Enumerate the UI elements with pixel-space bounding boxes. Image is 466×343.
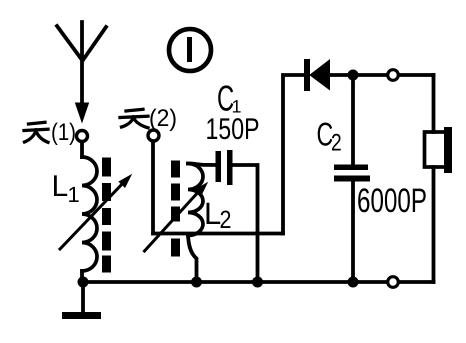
wire tap — [153, 232, 283, 236]
label 天(1) — [24, 122, 48, 142]
value 150P — [207, 118, 258, 139]
terminal node top right — [388, 70, 399, 81]
node junction — [252, 277, 263, 288]
ground — [62, 282, 101, 319]
capacitor C1 — [216, 150, 233, 185]
wire drop from 天(2) — [151, 142, 155, 234]
wire bottom bus — [83, 280, 387, 284]
label C1 — [218, 85, 233, 111]
node junction — [191, 277, 202, 288]
L2 core (dashed) — [171, 161, 180, 257]
earphone B — [425, 75, 453, 282]
wire — [400, 280, 434, 284]
terminal node bottom right — [388, 277, 399, 288]
terminal node 天(2) — [148, 130, 159, 141]
capacitor C2 — [334, 75, 370, 282]
L1 core (dashed) — [102, 158, 111, 273]
L1 arrow — [60, 175, 131, 249]
inductor L1 — [82, 157, 97, 282]
node junction — [348, 277, 359, 288]
wire C1 right, down — [233, 165, 258, 282]
label L1 — [54, 175, 67, 196]
wire — [400, 73, 434, 77]
node junction — [348, 70, 359, 81]
value 6000P — [358, 188, 426, 212]
inductor L2 — [188, 164, 203, 283]
node junction — [78, 277, 89, 288]
label L2 — [207, 203, 221, 224]
wire — [80, 143, 84, 158]
label 天(2) — [120, 109, 148, 128]
diode D — [304, 59, 353, 91]
label C2 — [318, 123, 333, 146]
antenna — [57, 22, 106, 122]
wire diode left leg — [283, 75, 305, 234]
L2 arrow — [145, 183, 208, 251]
terminal node 天(1) — [77, 131, 88, 142]
wire — [353, 73, 387, 77]
figure number 1 — [169, 29, 211, 71]
wire L2 top to C1 — [188, 164, 216, 166]
